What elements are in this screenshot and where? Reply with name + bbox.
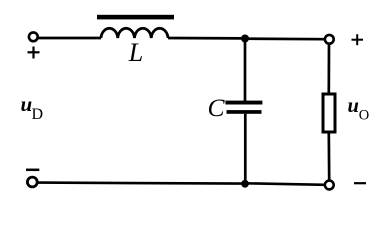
terminal bottom-left — [27, 177, 37, 187]
svg-text:L: L — [128, 38, 143, 67]
svg-text:D: D — [32, 106, 44, 123]
svg-text:u: u — [21, 92, 33, 116]
terminal top-left — [29, 32, 38, 41]
wire bottom horizontal right — [245, 183, 325, 185]
wire capacitor top vertical — [244, 41, 247, 101]
terminal top-right — [325, 35, 334, 44]
label plus top-right — [352, 34, 364, 45]
capacitor C bottom plate — [227, 110, 262, 114]
wire top-right horizontal — [245, 37, 325, 40]
label minus bottom-left — [26, 169, 39, 172]
inductor core bar — [97, 15, 174, 20]
wire top-middle horizontal — [168, 37, 245, 40]
resistor load body — [323, 94, 335, 132]
svg-text:C: C — [207, 93, 225, 122]
node junction top — [241, 35, 249, 43]
label minus bottom-right — [354, 182, 366, 184]
capacitor label C — [207, 93, 225, 122]
capacitor C top plate — [225, 101, 262, 105]
label plus top-left — [28, 47, 40, 59]
terminal bottom-right — [325, 181, 334, 190]
svg-text:O: O — [359, 108, 369, 124]
wire resistor bottom vertical — [327, 132, 330, 181]
inductor label L — [128, 38, 143, 67]
wire top-left horizontal — [38, 37, 102, 40]
svg-text:u: u — [348, 95, 359, 117]
wire capacitor bottom vertical — [244, 114, 247, 184]
node junction bottom — [241, 180, 249, 188]
wire resistor top vertical — [327, 44, 330, 95]
inductor L coil — [101, 28, 168, 38]
label uD — [21, 92, 44, 123]
label uO — [348, 95, 370, 124]
wire bottom horizontal left — [38, 183, 246, 184]
